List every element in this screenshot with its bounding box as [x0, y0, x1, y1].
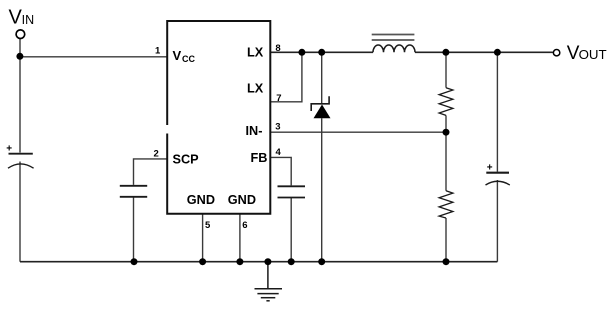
svg-text:1: 1 — [155, 46, 161, 57]
svg-text:V: V — [9, 6, 23, 28]
svg-text:5: 5 — [205, 220, 211, 231]
svg-text:IN: IN — [22, 13, 34, 27]
svg-text:3: 3 — [275, 122, 280, 133]
svg-text:6: 6 — [242, 220, 247, 231]
svg-text:GND: GND — [187, 193, 215, 207]
svg-text:+: + — [487, 162, 493, 173]
svg-text:LX: LX — [247, 46, 264, 60]
svg-text:FB: FB — [251, 151, 268, 165]
svg-text:OUT: OUT — [579, 47, 607, 62]
svg-text:+: + — [6, 144, 12, 155]
svg-text:IN-: IN- — [246, 124, 263, 138]
svg-text:2: 2 — [154, 148, 159, 159]
svg-text:LX: LX — [247, 82, 264, 96]
svg-text:7: 7 — [276, 93, 281, 104]
svg-text:SCP: SCP — [173, 153, 200, 167]
svg-text:8: 8 — [275, 43, 280, 54]
svg-text:GND: GND — [228, 193, 256, 207]
svg-text:V: V — [173, 48, 182, 63]
svg-text:CC: CC — [182, 54, 195, 64]
svg-text:4: 4 — [276, 147, 282, 158]
